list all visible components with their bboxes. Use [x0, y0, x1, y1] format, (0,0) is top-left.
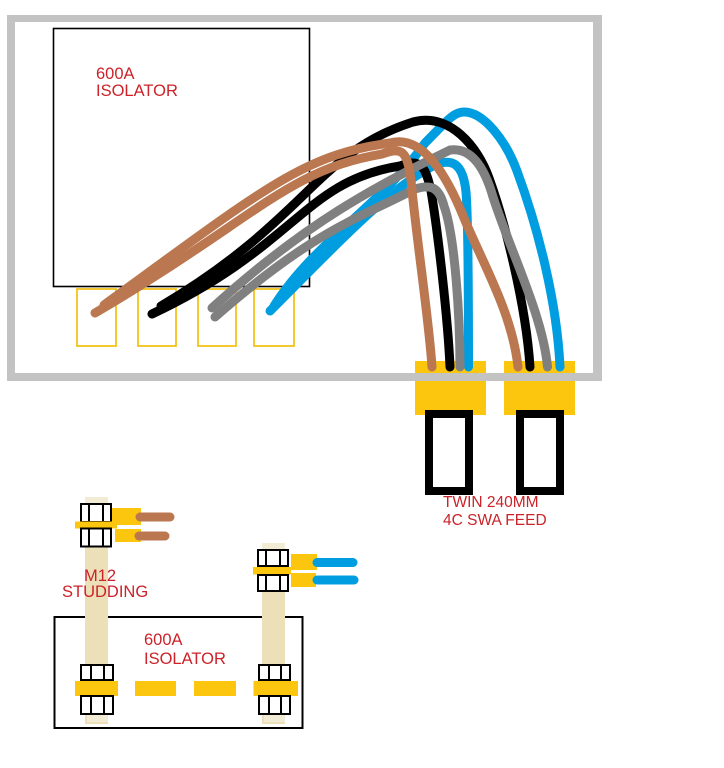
wire brown A: [95, 151, 432, 367]
enclosure border bottom: [7, 373, 602, 381]
lug 1 lower: [115, 529, 141, 542]
enclosure border top: [7, 15, 602, 22]
blue tail wire 2: [317, 576, 354, 585]
gland 1: [415, 361, 486, 415]
terminal box 4: [254, 289, 294, 346]
label: 600A ISOLATOR (top box): [96, 66, 178, 99]
stud2 washer lower: [254, 681, 299, 696]
isolator box (top enclosure inner box): [54, 29, 310, 287]
label: M12: [84, 567, 116, 586]
lug 2 upper: [291, 554, 317, 570]
stud2 nut lower (in box): [259, 665, 290, 680]
wire blue B: [274, 112, 560, 367]
stud2 nut bottom: [259, 696, 290, 714]
wire brown B: [104, 142, 518, 367]
stud 2 light tail: [264, 714, 285, 722]
stud2 nut 2: [258, 575, 288, 591]
brown tail wire 1: [140, 513, 170, 522]
wire gray A: [215, 187, 460, 367]
busbar dash 1: [135, 681, 176, 696]
lug 1 upper: [112, 508, 141, 525]
stud 1: [85, 497, 108, 724]
stud1 washer lower: [75, 681, 118, 696]
terminal box 2: [138, 289, 176, 346]
blue tail wire 1: [317, 558, 353, 567]
label: TWIN 240MM 4C SWA FEED: [443, 494, 547, 529]
label: STUDDING: [62, 583, 148, 602]
stud1 nut bottom: [81, 696, 113, 714]
stud 1 light tail: [87, 714, 108, 722]
stud1 nut lower (in box): [81, 665, 113, 680]
wire gray B: [212, 150, 548, 367]
stud 2: [262, 543, 285, 724]
SWA cable 1: [429, 414, 469, 491]
stud 1 light cap: [85, 497, 108, 505]
wire blue A: [270, 162, 469, 367]
stud2 nut top: [258, 550, 288, 566]
terminal box 3: [198, 289, 236, 346]
stud2 washer top: [253, 567, 291, 575]
enclosure border left: [7, 15, 15, 381]
label: 600A ISOLATOR (bottom box): [144, 631, 226, 668]
wire black A: [152, 163, 450, 367]
gland 2: [504, 361, 575, 415]
lug 2 lower: [291, 573, 316, 587]
brown tail wire 2: [139, 532, 165, 541]
stud1 washer top: [75, 522, 117, 529]
isolator box (bottom): [55, 617, 303, 728]
stud1 nut 2: [81, 529, 111, 547]
stud 2 light cap: [262, 543, 285, 551]
SWA cable 2: [520, 414, 560, 491]
wire black B: [161, 120, 530, 367]
terminal box 1: [77, 289, 116, 346]
stud1 nut top: [81, 504, 111, 522]
enclosure border right: [593, 15, 602, 381]
busbar dash 2: [194, 681, 236, 696]
